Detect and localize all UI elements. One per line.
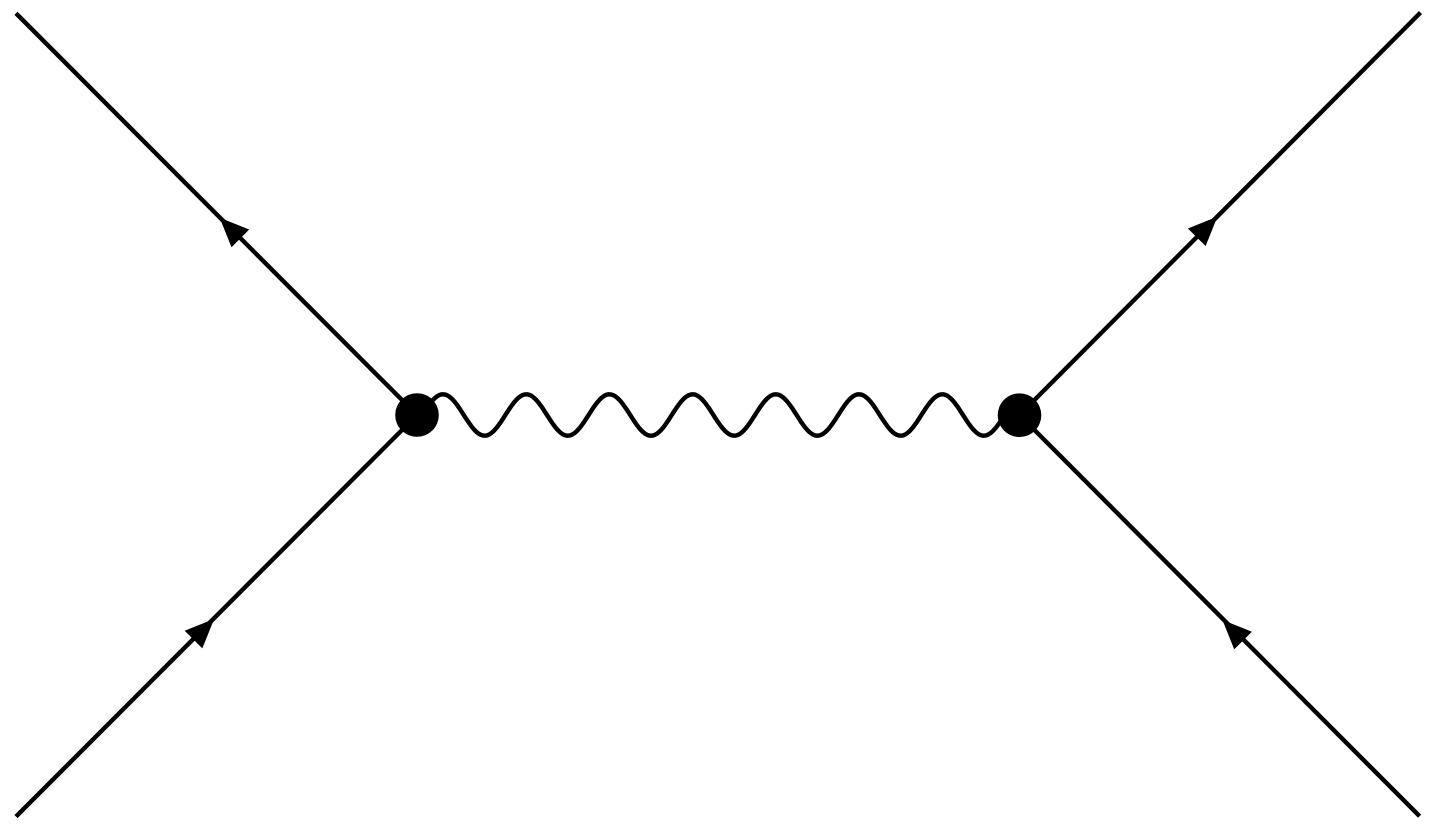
photon propagator (wavy line) — [419, 394, 1015, 435]
left interaction vertex dot — [395, 393, 439, 437]
outgoing antimuon line (bottom-right fermion line) — [1020, 415, 1420, 816]
arrow on top-right line (fermion flow up-right) — [1188, 217, 1218, 247]
right interaction vertex dot — [998, 393, 1042, 437]
incoming electron line (bottom-left fermion line) — [16, 415, 417, 817]
outgoing muon line (top-right fermion line) — [1020, 13, 1421, 415]
arrow on top-left line (fermion flow up-left) — [220, 218, 250, 248]
incoming positron line (top-left fermion line) — [16, 13, 417, 415]
arrow on bottom-right line (fermion flow up-left) — [1222, 620, 1252, 650]
arrow on bottom-left line (fermion flow up-right) — [185, 619, 215, 649]
